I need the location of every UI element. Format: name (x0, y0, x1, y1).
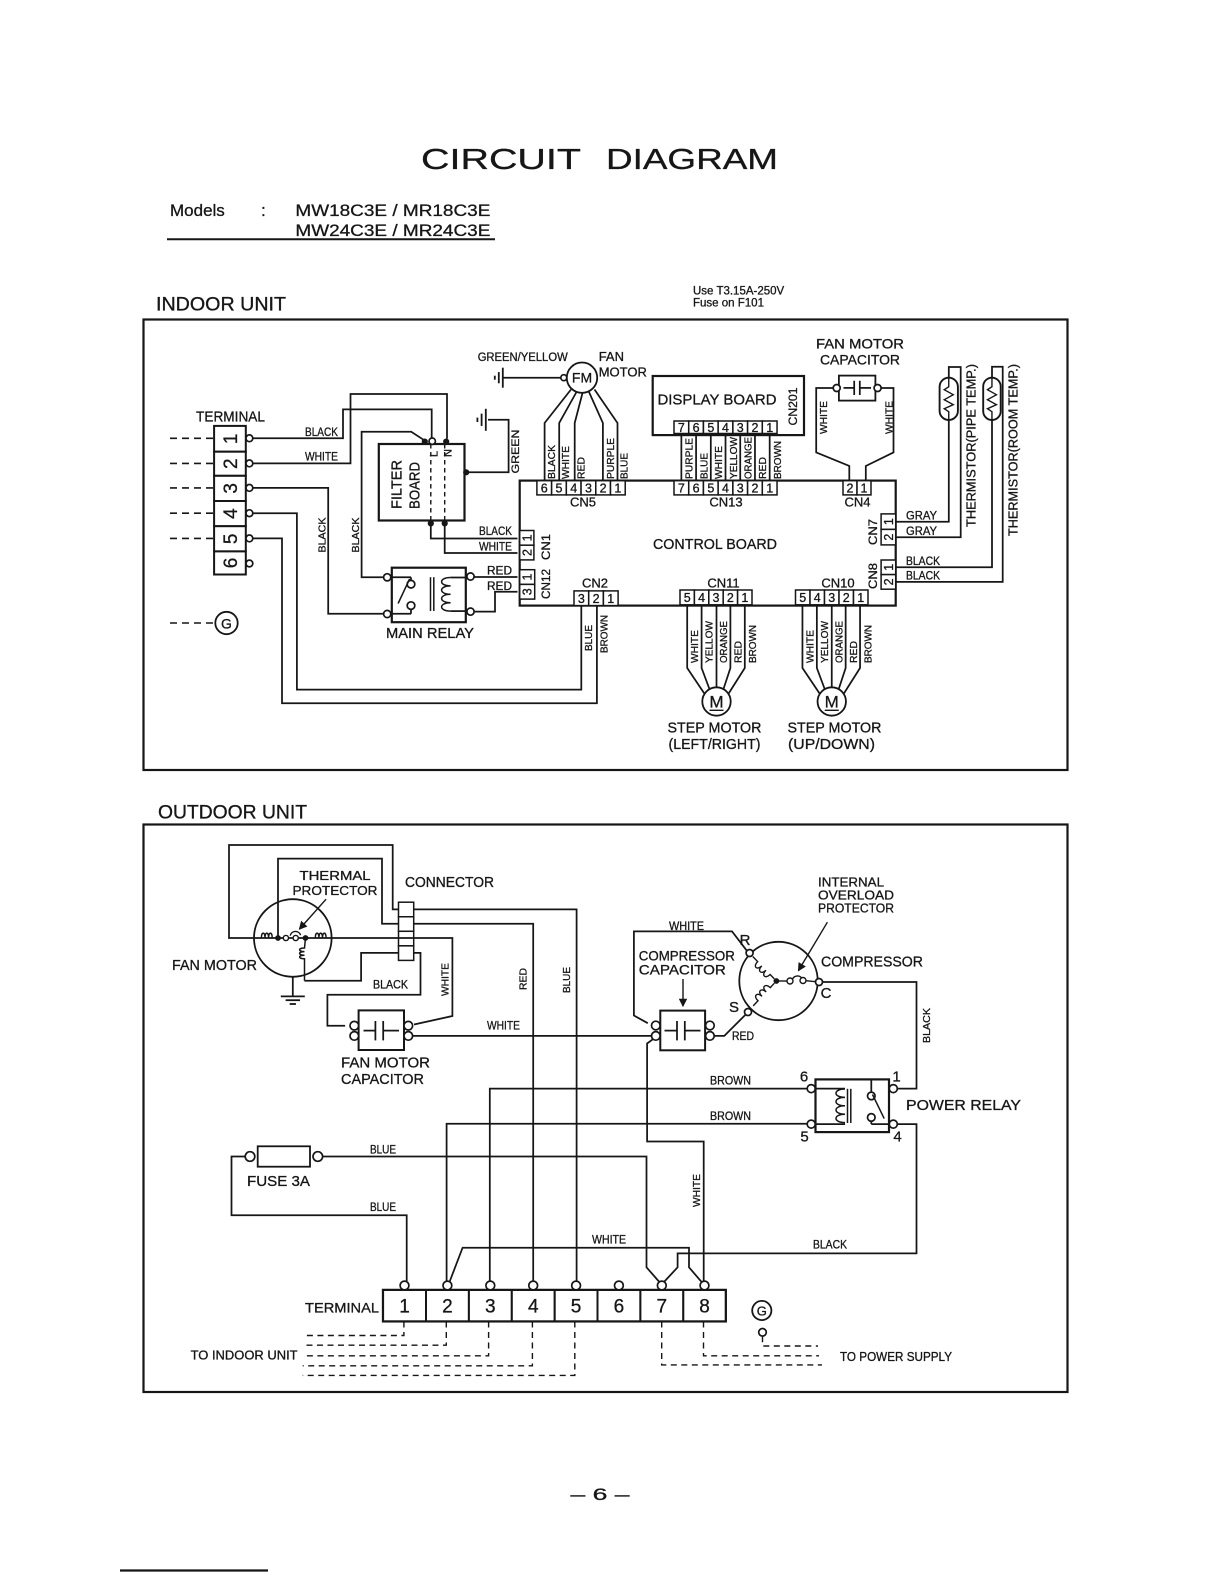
svg-text:CN10: CN10 (821, 576, 854, 591)
svg-text:FAN: FAN (599, 349, 624, 364)
display board connector cells 7-1 (674, 421, 689, 434)
ground symbol (green wire) (485, 409, 487, 431)
svg-text:BLACK: BLACK (546, 445, 558, 479)
wire compressor capacitor to terminal8 (WHITE) (647, 1039, 704, 1281)
svg-text:1: 1 (861, 481, 868, 495)
svg-text:6: 6 (693, 481, 700, 495)
wire filter board N-bottom to CN1 pin2 (WHITE) (445, 526, 518, 554)
power relay switch (868, 1079, 890, 1124)
svg-text:PROTECTOR: PROTECTOR (293, 883, 378, 898)
compressor winding coil to S (749, 980, 774, 1006)
svg-text:S: S (729, 999, 739, 1016)
label STEP MOTOR (LEFT/RIGHT) (668, 720, 762, 754)
svg-text:COMPRESSOR: COMPRESSOR (821, 954, 923, 971)
svg-text:3: 3 (585, 481, 592, 495)
outdoor unit enclosure box (144, 825, 1068, 1393)
label FAN MOTOR CAPACITOR (indoor) (816, 336, 904, 368)
filter board bottom pins (428, 521, 447, 526)
svg-text:2: 2 (442, 1297, 453, 1318)
svg-text:G: G (221, 615, 232, 631)
filter board rotated text FILTER BOARD (390, 460, 424, 509)
filter board top pins (junction dot, L pin circle, N pin dot) (422, 438, 449, 444)
connector CN5 cells (537, 481, 552, 495)
main relay pin circles (384, 573, 475, 618)
svg-text:1: 1 (766, 421, 773, 435)
wire fuse to terminal1 (BLUE) (232, 1157, 407, 1282)
svg-text:STEP MOTOR: STEP MOTOR (668, 720, 762, 737)
connector CN (outdoor) 4 cells (399, 902, 414, 960)
svg-text:1: 1 (221, 434, 242, 445)
svg-text:BLACK: BLACK (906, 569, 940, 583)
svg-text:WHITE: WHITE (479, 540, 512, 554)
svg-text:GRAY: GRAY (906, 524, 937, 538)
svg-text:2: 2 (593, 592, 600, 606)
filter board dashed N line (444, 444, 446, 521)
wires capacitor to CN4 (816, 388, 893, 481)
svg-text:1: 1 (520, 534, 534, 541)
dashed link terminal8 to power supply (704, 1322, 820, 1356)
power relay pin circles (807, 1085, 897, 1129)
connector CN8 cells (rotated digits) (881, 560, 896, 575)
svg-text:PURPLE: PURPLE (684, 438, 696, 479)
fan motor capacitor C (indoor) box and symbol (839, 376, 876, 401)
svg-text:MOTOR: MOTOR (599, 365, 647, 380)
svg-text:2: 2 (520, 549, 534, 556)
svg-text:N: N (443, 449, 455, 457)
rotated wire labels BLACK WHITE RED PURPLE BLUE (CN5) (546, 438, 630, 479)
svg-text:4: 4 (698, 591, 705, 605)
svg-text:MW18C3E / MR18C3E: MW18C3E / MR18C3E (295, 201, 490, 220)
svg-text:CONNECTOR: CONNECTOR (405, 874, 494, 891)
svg-text:5: 5 (221, 534, 242, 545)
svg-text:BROWN: BROWN (863, 625, 875, 663)
svg-text:WHITE: WHITE (691, 1174, 703, 1207)
wire filter board L-bottom to CN1 pin1 (BLACK) (431, 526, 518, 539)
compressor winding coil to R (749, 957, 774, 983)
svg-text:5: 5 (800, 1129, 808, 1146)
fan motor capacitor side pin circles (833, 385, 881, 392)
svg-text:4: 4 (722, 481, 729, 495)
svg-text:YELLOW: YELLOW (704, 621, 716, 663)
thermistor RT1 (pipe temp) capsule (940, 378, 958, 420)
svg-text:CAPACITOR: CAPACITOR (639, 962, 726, 978)
svg-text:2: 2 (221, 458, 242, 469)
rotated labels WHITE YELLOW ORANGE RED BROWN (CN10) (805, 621, 875, 663)
filter board dashed L line (430, 444, 432, 521)
svg-text:FAN MOTOR: FAN MOTOR (341, 1055, 430, 1072)
svg-text:BROWN: BROWN (598, 615, 610, 653)
main relay box (392, 568, 466, 623)
ground symbol for fan motor green/yellow (502, 368, 504, 388)
svg-text:6: 6 (693, 421, 700, 435)
svg-text:MAIN RELAY: MAIN RELAY (386, 625, 474, 642)
svg-text:CAPACITOR: CAPACITOR (341, 1071, 424, 1088)
wire green/yellow ground to FM motor (503, 377, 561, 379)
svg-text:FUSE 3A: FUSE 3A (247, 1174, 310, 1190)
svg-text:1: 1 (607, 592, 614, 606)
svg-text:BROWN: BROWN (772, 441, 784, 479)
svg-text:5: 5 (571, 1297, 582, 1318)
svg-text:2: 2 (600, 481, 607, 495)
svg-text:BLUE: BLUE (619, 453, 631, 479)
svg-text:RED: RED (576, 457, 588, 479)
wire CN7 pin1 to thermistor1 bottom lead (GRAY) (896, 420, 949, 522)
connector CN2 cells (574, 591, 589, 606)
svg-text:GREEN/YELLOW: GREEN/YELLOW (478, 352, 568, 364)
svg-text:WHITE: WHITE (713, 446, 725, 479)
svg-text:YELLOW: YELLOW (728, 437, 740, 479)
svg-text:L: L (429, 451, 441, 457)
svg-text:G: G (757, 1303, 767, 1318)
indoor unit enclosure box (144, 320, 1068, 771)
svg-text:TO INDOOR UNIT: TO INDOOR UNIT (191, 1349, 298, 1363)
label INTERNAL OVERLOAD PROTECTOR (818, 875, 894, 916)
svg-text:2: 2 (882, 534, 896, 541)
svg-text:BLUE: BLUE (698, 453, 710, 479)
svg-text:6: 6 (221, 558, 242, 569)
wire terminal2 to terminal8 (WHITE) (450, 1248, 702, 1283)
svg-text:THERMAL: THERMAL (300, 868, 371, 883)
fuse F1 3A (245, 1146, 322, 1166)
fan motor wires to CN5 (5 wires) (545, 390, 618, 482)
dashed leads left of terminal 1-5 (170, 438, 214, 538)
svg-text:1: 1 (741, 591, 748, 605)
wire main relay upper-left to filter board junction (BLACK riser) (362, 432, 425, 578)
svg-text:2: 2 (751, 421, 758, 435)
fan motor circle (outdoor) (254, 899, 332, 977)
svg-text:FAN MOTOR: FAN MOTOR (172, 957, 257, 974)
svg-text:(LEFT/RIGHT): (LEFT/RIGHT) (669, 736, 761, 753)
thermistor RT2 (room temp) capsule (983, 378, 1001, 420)
svg-text:ORANGE: ORANGE (834, 621, 846, 663)
arrow internal overload protector (799, 922, 828, 970)
outdoor terminal pin circles (400, 1281, 709, 1290)
main relay switch contacts (391, 577, 415, 614)
fan motor capacitor pin circles (350, 1021, 413, 1040)
connector CN1 cells (rotated digits) (520, 531, 534, 546)
svg-text:BLACK: BLACK (305, 425, 338, 439)
svg-text:ORANGE: ORANGE (718, 621, 730, 663)
svg-text:M: M (709, 692, 723, 711)
svg-text:WHITE: WHITE (439, 963, 451, 996)
wires CN11 to step motor 1 (687, 605, 745, 695)
compressor circle (739, 942, 817, 1020)
svg-text:STEP MOTOR: STEP MOTOR (788, 720, 882, 737)
svg-text:3: 3 (737, 421, 744, 435)
blue artifact line bottom left (120, 1569, 268, 1571)
svg-text:GRAY: GRAY (906, 509, 937, 523)
svg-text:PURPLE: PURPLE (605, 438, 617, 479)
svg-text:WHITE: WHITE (487, 1019, 520, 1033)
svg-text:CIRCUIT: CIRCUIT (421, 144, 581, 176)
svg-text:Use T3.15A-250V: Use T3.15A-250V (693, 286, 785, 298)
svg-text:7: 7 (678, 481, 685, 495)
wire fan motor main winding through connector pin3 to fan capacitor (WHITE) (332, 938, 453, 1025)
svg-text:6: 6 (541, 481, 548, 495)
svg-text:THERMISTOR(PIPE TEMP.): THERMISTOR(PIPE TEMP.) (964, 364, 978, 527)
dashed link G to power supply (763, 1336, 819, 1346)
compressor terminal C circle and label (816, 979, 832, 1003)
svg-text:1: 1 (766, 481, 773, 495)
svg-text:YELLOW: YELLOW (819, 621, 831, 663)
svg-text:WHITE: WHITE (592, 1233, 626, 1247)
long WHITE wire fan capacitor to compressor capacitor (413, 1035, 652, 1037)
svg-text:FILTER: FILTER (390, 460, 406, 509)
wire compressor C to power relay pin1 (BLACK) (823, 982, 917, 1089)
svg-text:CN5: CN5 (570, 495, 596, 510)
svg-text:5: 5 (556, 481, 563, 495)
fuse note Use T3.15A-250V Fuse on F101 (693, 286, 785, 310)
svg-text:DIAGRAM: DIAGRAM (606, 144, 778, 176)
svg-text:5: 5 (684, 591, 691, 605)
fan motor main winding line and coils (254, 933, 332, 938)
svg-text:1: 1 (892, 1069, 900, 1086)
filter board right pin dot (green) (464, 470, 469, 475)
svg-text:RED: RED (517, 968, 529, 990)
wire power relay pin4 to terminal7 (BLACK) (664, 1124, 917, 1282)
arrow thermal protector (300, 899, 327, 929)
svg-text::: : (261, 201, 266, 220)
svg-text:3: 3 (737, 481, 744, 495)
svg-text:BLACK: BLACK (373, 978, 408, 992)
svg-text:BLACK: BLACK (316, 518, 328, 553)
compressor terminal R circle and label (740, 932, 754, 957)
connector CN11 cells (680, 590, 694, 605)
svg-text:GREEN: GREEN (510, 429, 522, 473)
svg-text:CN11: CN11 (707, 576, 739, 591)
svg-text:Fuse on F101: Fuse on F101 (693, 298, 764, 310)
svg-text:CN1: CN1 (541, 534, 553, 560)
wires display board to CN13 (7 wires) (681, 434, 769, 481)
models text (167, 201, 495, 240)
wire power relay pin5 to terminal2 (BROWN) (447, 1124, 807, 1282)
svg-text:8: 8 (699, 1297, 710, 1318)
svg-text:4: 4 (814, 591, 821, 605)
svg-text:PROTECTOR: PROTECTOR (818, 901, 894, 916)
rotated labels WHITE YELLOW ORANGE RED BROWN (CN11) (689, 621, 759, 663)
svg-text:RED: RED (732, 1029, 754, 1043)
power relay core bars (848, 1089, 851, 1123)
label COMPRESSOR CAPACITOR (639, 948, 735, 978)
wire terminal4 to CN2 pin3 (BLUE run) (253, 513, 582, 689)
svg-text:– 6 –: – 6 – (571, 1485, 631, 1504)
svg-text:BOARD: BOARD (408, 462, 424, 509)
step motor 2 (up/down) M circle (818, 687, 846, 715)
svg-text:WHITE: WHITE (805, 630, 817, 663)
wire CN7 pin2 to thermistor1 top lead (GRAY) (896, 367, 961, 537)
svg-text:DISPLAY BOARD: DISPLAY BOARD (658, 392, 777, 409)
svg-text:RED: RED (732, 641, 744, 663)
connector CN10 cells (796, 590, 811, 605)
svg-text:WHITE: WHITE (305, 450, 338, 464)
svg-text:3: 3 (521, 588, 535, 595)
svg-text:WHITE: WHITE (818, 401, 830, 434)
svg-text:4: 4 (528, 1297, 539, 1318)
svg-text:5: 5 (707, 481, 714, 495)
svg-text:CN13: CN13 (709, 495, 742, 510)
fan motor thermal protector contacts (276, 931, 308, 940)
ground terminal G (outdoor) (752, 1301, 771, 1336)
connector CN7 cells (rotated digits) (881, 514, 896, 530)
compressor capacitor box and symbol (660, 1011, 705, 1051)
svg-text:3: 3 (221, 483, 242, 494)
svg-text:WHITE: WHITE (689, 630, 701, 663)
svg-text:BROWN: BROWN (710, 1109, 751, 1123)
svg-text:7: 7 (657, 1297, 668, 1318)
main relay coil (442, 578, 467, 612)
dashed links terminals 1-5 to indoor unit (303, 1322, 575, 1376)
label STEP MOTOR (UP/DOWN) (788, 720, 882, 754)
wire terminal1 to filter board L (BLACK) (253, 409, 432, 438)
power relay pin numbers 6 1 5 4 (800, 1069, 902, 1146)
svg-text:POWER RELAY: POWER RELAY (906, 1097, 1021, 1114)
svg-text:3: 3 (578, 592, 585, 606)
wire connector pin1 to terminal5 (BLUE) (414, 909, 577, 1281)
rotated labels WHITE WHITE (CN4 wires) (818, 401, 896, 434)
svg-text:BLACK: BLACK (813, 1238, 847, 1252)
svg-text:RED: RED (757, 457, 769, 479)
svg-text:OUTDOOR UNIT: OUTDOOR UNIT (158, 803, 307, 824)
wire compressor R to compressor capacitor (WHITE) (634, 931, 747, 1023)
fan motor FM circle (indoor) (567, 363, 597, 393)
wire terminal3 to main relay lower-left (BLACK vertical) (253, 488, 383, 614)
svg-text:TERMINAL: TERMINAL (305, 1300, 379, 1316)
filter board box (379, 444, 465, 521)
svg-text:2: 2 (751, 481, 758, 495)
outdoor terminal strip cells 1-8 (383, 1290, 726, 1321)
dashed link terminal7 to power supply (662, 1322, 822, 1365)
svg-text:RED: RED (487, 564, 512, 578)
wire connector pin2 to terminal4 (RED) (414, 924, 534, 1282)
wire main relay to CN12 pin1 (RED) (474, 576, 517, 578)
power relay coil (816, 1089, 846, 1125)
green ground wire from filter board (466, 420, 508, 473)
svg-text:CN12: CN12 (541, 569, 553, 599)
wire terminal5 to CN2 pin2 (BROWN run) (253, 538, 597, 703)
wire CN8 pin2 to thermistor2 top lead (BLACK) (896, 367, 1003, 582)
wire fan motor junction loop to connector pin2 (278, 859, 399, 938)
svg-text:BROWN: BROWN (747, 625, 759, 663)
svg-text:3: 3 (485, 1297, 496, 1318)
svg-text:4: 4 (893, 1129, 901, 1146)
svg-text:(UP/DOWN): (UP/DOWN) (788, 736, 875, 753)
svg-text:BLUE: BLUE (583, 625, 595, 651)
svg-text:1: 1 (614, 481, 621, 495)
arrow compressor capacitor (682, 979, 684, 1006)
step motor 1 (left/right) M circle (702, 687, 730, 715)
svg-text:1: 1 (399, 1297, 410, 1318)
svg-text:BROWN: BROWN (710, 1074, 751, 1088)
svg-text:BLUE: BLUE (370, 1200, 396, 1214)
svg-text:R: R (740, 932, 751, 949)
svg-text:C: C (821, 985, 832, 1002)
svg-text:FM: FM (572, 370, 592, 386)
svg-text:CN7: CN7 (868, 519, 880, 545)
compressor capacitor pin circles (652, 1021, 715, 1040)
svg-text:4: 4 (722, 421, 729, 435)
wire compressor capacitor to S (RED) (714, 1015, 745, 1036)
ground terminal G (indoor) with dashed lead (170, 612, 238, 634)
svg-text:1: 1 (882, 518, 896, 525)
svg-text:5: 5 (799, 591, 806, 605)
svg-text:BLUE: BLUE (561, 967, 573, 993)
label FAN MOTOR (indoor) (599, 349, 647, 380)
svg-text:RED: RED (848, 641, 860, 663)
svg-text:1: 1 (882, 564, 896, 571)
svg-text:THERMISTOR(ROOM TEMP.): THERMISTOR(ROOM TEMP.) (1006, 364, 1020, 536)
rotated wire labels PURPLE BLUE WHITE YELLOW ORANGE RED BROWN (CN13) (684, 437, 784, 479)
svg-text:BLACK: BLACK (921, 1008, 933, 1043)
svg-text:CN4: CN4 (844, 495, 870, 510)
wire terminal2 to filter board N (WHITE) (253, 394, 447, 463)
svg-text:BLACK: BLACK (906, 554, 940, 568)
connector CN4 cells (843, 481, 857, 495)
wire aux winding through connector pin4 to fan capacitor (BLACK loop) (305, 953, 421, 1026)
svg-text:3: 3 (828, 591, 835, 605)
compressor terminal S circle and label (729, 999, 752, 1016)
FM motor pin circle (561, 375, 567, 381)
label THERMAL PROTECTOR (293, 868, 378, 898)
wire power relay pin6 to terminal3 (BROWN) (490, 1089, 807, 1282)
svg-text:CAPACITOR: CAPACITOR (820, 352, 900, 368)
svg-text:Models: Models (170, 201, 225, 220)
display board box (653, 376, 804, 435)
svg-text:5: 5 (707, 421, 714, 435)
svg-text:BLUE: BLUE (370, 1143, 396, 1157)
svg-text:1: 1 (857, 591, 864, 605)
main relay core bars (431, 577, 434, 611)
wire main relay to CN12 pin3 (RED) (471, 592, 518, 612)
svg-text:CN2: CN2 (582, 576, 608, 591)
svg-text:WHITE: WHITE (883, 401, 895, 434)
label FAN MOTOR CAPACITOR (outdoor) (341, 1055, 430, 1089)
svg-text:CONTROL BOARD: CONTROL BOARD (653, 536, 777, 553)
svg-text:4: 4 (221, 508, 242, 519)
connector CN13 cells (674, 481, 689, 495)
svg-text:2: 2 (882, 578, 896, 585)
wire fuse to terminal7 (BLUE) (323, 1157, 660, 1283)
svg-text:BLACK: BLACK (350, 518, 362, 553)
svg-text:3: 3 (713, 591, 720, 605)
svg-text:2: 2 (727, 591, 734, 605)
ground below fan motor (281, 977, 305, 1004)
compressor internal overload contact (779, 976, 816, 984)
wires CN10 to step motor 2 (802, 605, 860, 695)
svg-text:BLACK: BLACK (479, 524, 512, 538)
svg-text:TERMINAL: TERMINAL (196, 409, 265, 426)
terminal block TB1 cells 1-6 (rotated digits) (214, 426, 246, 575)
svg-text:1: 1 (521, 574, 535, 581)
wire fan motor left loop to connector pin1 (229, 845, 399, 938)
svg-text:7: 7 (678, 421, 685, 435)
svg-text:INDOOR UNIT: INDOOR UNIT (156, 295, 286, 316)
power relay box (816, 1079, 890, 1132)
fan motor aux winding coil (300, 938, 306, 981)
svg-text:2: 2 (843, 591, 850, 605)
svg-text:CN201: CN201 (786, 387, 800, 425)
svg-text:2: 2 (847, 481, 854, 495)
svg-text:RED: RED (487, 579, 512, 593)
svg-text:M: M (825, 692, 839, 711)
svg-text:MW24C3E / MR24C3E: MW24C3E / MR24C3E (295, 221, 490, 240)
svg-text:4: 4 (570, 481, 577, 495)
fan motor capacitor (outdoor) box and symbol (359, 1010, 404, 1050)
svg-text:FAN MOTOR: FAN MOTOR (816, 336, 904, 352)
svg-text:6: 6 (614, 1297, 625, 1318)
svg-text:TO POWER SUPPLY: TO POWER SUPPLY (840, 1350, 953, 1364)
svg-text:ORANGE: ORANGE (743, 437, 755, 479)
svg-text:WHITE: WHITE (560, 446, 572, 479)
